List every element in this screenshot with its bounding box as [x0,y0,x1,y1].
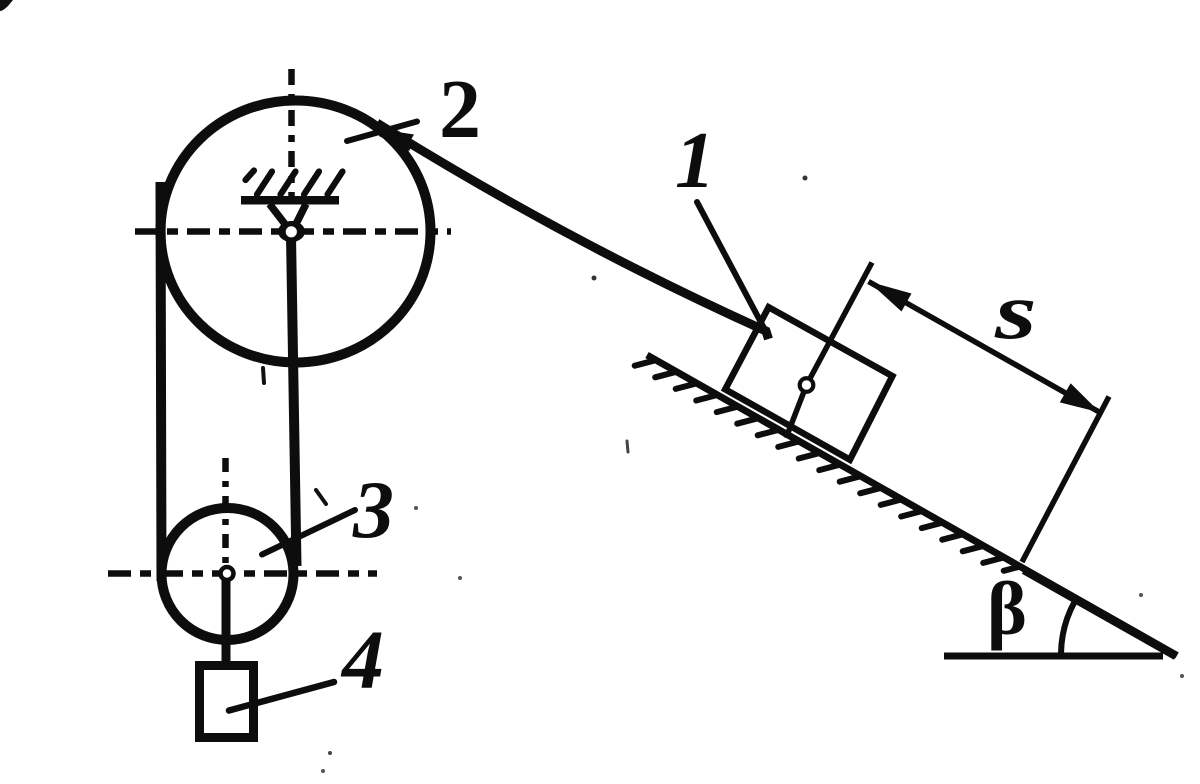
wire rope from pulley 2 axle down to pulley 3 [291,236,297,566]
leader line label 1 [697,202,765,330]
wire rope left vertical run [161,182,162,581]
centerline horizontal pulley 3 [108,570,377,577]
support pivot triangle [270,204,307,228]
s arrowhead far [1060,383,1100,412]
svg-text:3: 3 [352,464,394,555]
support hatching [246,171,343,195]
scan corner mark [0,0,13,11]
incline tip thickening [1024,570,1176,656]
leader line label 3 [262,510,355,555]
svg-text:2: 2 [439,63,481,156]
block 1 [725,307,892,460]
svg-text:1: 1 [675,117,715,205]
rope arrowhead [382,130,414,152]
link bar to weight [222,580,231,663]
centerline horizontal pulley 2 [135,228,451,235]
pin O3 [221,567,234,580]
svg-text:s: s [994,268,1037,356]
pulley 2 wheel [161,101,431,363]
ground line [944,653,1163,660]
pin O2 [283,224,299,240]
pin boss pulley 2 [278,221,305,242]
incline hatching [635,360,1021,571]
speck marks [316,490,326,504]
wire rope from pulley 2 to block 1 [377,123,769,339]
dimension tick through block [786,263,872,439]
incline surface [647,355,1177,656]
svg-text:4: 4 [340,614,384,707]
centerline vertical pulley 2 [288,69,295,199]
pulley 3 wheel [162,508,294,640]
leader line label 4 [229,682,334,711]
pin on block 1 [800,378,814,392]
weight 4 box [200,666,254,738]
support bar [241,196,339,205]
centerline vertical pulley 3 [222,458,229,568]
svg-text:β: β [987,567,1027,651]
s dimension shaft [869,282,1101,413]
angle arc beta [1061,601,1075,654]
leader line label 2 [347,122,417,142]
dimension tick far [1022,397,1109,563]
s arrowhead near block [869,282,912,312]
